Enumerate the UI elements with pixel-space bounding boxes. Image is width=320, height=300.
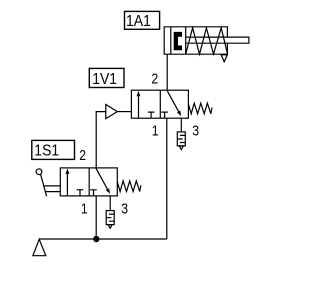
valve 1V1 flow arrow (left square) — [137, 91, 141, 118]
svg-text:1V1: 1V1 — [92, 71, 117, 88]
plunger lines — [44, 186, 60, 192]
valve 1S1 blocked port T (left square) — [77, 190, 84, 196]
wire 1V1 port 1 to supply line — [166, 118, 168, 239]
return spring — [186, 28, 228, 54]
valve 1S1 flow arrow (left square) — [66, 169, 70, 196]
silencer at 1S1 port 3 — [106, 211, 114, 229]
wire 1S1 port 1 to supply line — [95, 196, 97, 239]
valve 1S1 body — [60, 168, 117, 196]
wire cylinder to valve 1V1 port 2 — [166, 54, 168, 90]
svg-text:2: 2 — [79, 147, 86, 164]
svg-text:3: 3 — [121, 200, 128, 217]
label 1S1 — [32, 140, 75, 159]
valve 1V1 port 3 stub — [180, 118, 182, 132]
svg-text:1S1: 1S1 — [34, 143, 59, 160]
valve 1S1 diagonal 2-3 with arrowhead — [96, 168, 110, 194]
piston black C block — [174, 32, 182, 50]
valve 1S1 return spring — [117, 181, 141, 192]
valve 1V1 body — [131, 90, 188, 118]
svg-text:1: 1 — [81, 200, 88, 217]
svg-text:2: 2 — [151, 71, 158, 88]
junction node — [93, 236, 99, 242]
valve 1V1 blocked port 1 T (right square) — [161, 112, 168, 118]
valve 1S1 divider — [88, 168, 90, 196]
wire pilot to valve — [117, 111, 131, 113]
valve 1V1 return spring — [188, 103, 212, 114]
label 1V1 — [89, 68, 124, 88]
piston plate right line — [185, 27, 187, 54]
piston rod — [186, 37, 249, 43]
valve 1V1 blocked port T (left square) — [148, 112, 155, 118]
valve 1V1 pilot triangle — [106, 105, 118, 119]
wire pilot from 1S1 port 2 — [96, 112, 106, 169]
lever knob circle — [36, 169, 42, 175]
valve 1V1 divider — [159, 90, 161, 118]
lever arm — [41, 174, 47, 196]
svg-text:1: 1 — [152, 123, 159, 140]
svg-text:1A1: 1A1 — [126, 13, 151, 30]
valve 1S1 port 3 stub — [109, 196, 111, 211]
vent triangle — [221, 55, 227, 62]
cylinder 1A1 barrel — [164, 27, 227, 54]
supply line — [39, 238, 167, 240]
silencer at 1V1 port 3 — [177, 132, 185, 150]
valve 1S1 blocked port 1 T (right square) — [90, 190, 97, 196]
svg-text:3: 3 — [192, 123, 199, 140]
piston plate left line — [170, 27, 172, 54]
valve 1V1 diagonal 2-3 with arrowhead — [167, 90, 181, 116]
label 1A1 — [125, 11, 160, 29]
compressed air source triangle — [33, 239, 46, 255]
